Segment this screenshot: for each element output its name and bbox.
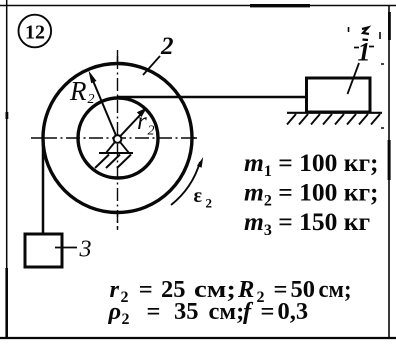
svg-text:m2 = 100 кг;: m2 = 100 кг; xyxy=(244,178,379,210)
svg-text:r: r xyxy=(137,108,147,135)
svg-text:2: 2 xyxy=(160,33,174,60)
svg-text:3: 3 xyxy=(79,237,92,263)
svg-text:m3 = 150 кг: m3 = 150 кг xyxy=(244,207,370,239)
svg-text:1: 1 xyxy=(358,38,371,67)
svg-text:2: 2 xyxy=(206,196,213,211)
svg-text:ρ2=35см;f=0,3: ρ2=35см;f=0,3 xyxy=(108,298,309,328)
svg-text:12: 12 xyxy=(25,22,45,44)
svg-text:m1 = 100 кг;: m1 = 100 кг; xyxy=(244,148,379,180)
svg-text:R: R xyxy=(69,76,87,106)
svg-text:ε: ε xyxy=(194,185,203,207)
svg-text:2: 2 xyxy=(88,92,95,107)
svg-text:2: 2 xyxy=(148,124,155,139)
